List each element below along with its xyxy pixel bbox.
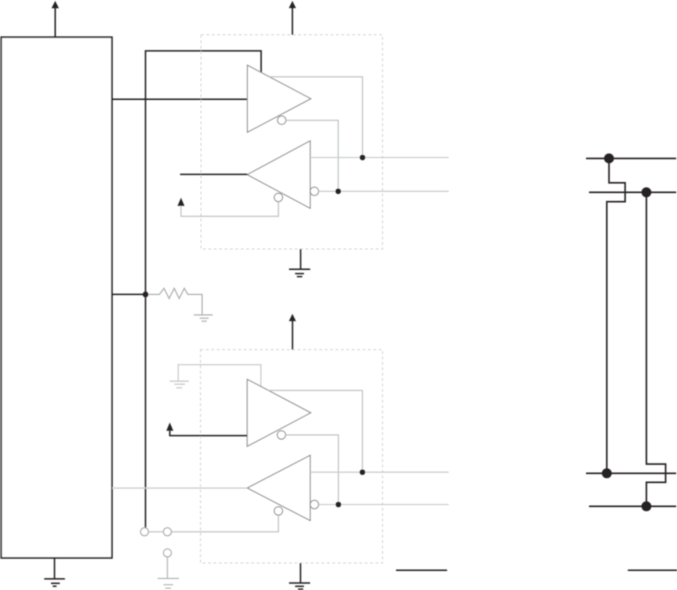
VCC arrow (U2) [289,1,296,35]
resistor R1 [148,288,202,314]
receiver R (U2) [247,141,310,209]
wire bus B (lower, gray) [319,504,449,506]
wire receiver1 enable [181,202,278,217]
transceiver box U2 (dashed) [201,35,383,249]
ground (J3, gray) [158,578,179,588]
wire stub (bottom right segment) [628,569,677,571]
wire bus B (upper, gray) [319,190,449,192]
bus line B (bottom right) [589,505,676,507]
wire D2 input [170,431,247,436]
arrow D2 net [166,423,173,431]
wire bus A (upper, gray) [310,157,449,159]
node bus B top [641,187,651,197]
node bus A top [604,153,614,163]
driver D (U2) [247,65,310,132]
wire driver1 Y output [269,77,362,158]
wire bus A (lower, gray) [310,471,449,473]
ground (U3 driver enable, gray) [170,381,189,388]
ground (below U3) [289,563,310,589]
receiver R (U3) [247,455,310,520]
VCC arrow (U3) [289,314,296,350]
bubble receiver2 enable [274,507,282,515]
bus line A (top right) [586,157,676,159]
ground (for R1, gray) [194,315,213,321]
wire driver2 Y output [268,390,362,472]
bubble receiver2 B input [310,500,318,508]
node junction (pullup) [143,292,149,298]
wire bus A vertical (crossover) [607,158,625,473]
wire R2 output [112,487,247,489]
wire receiver2 enable to jumper [171,515,278,532]
node B1 [335,189,341,195]
wire DE rail (top) [146,51,262,528]
transceiver box U3 (dashed) [201,350,383,563]
jumper pad J1 [141,528,149,536]
ground (below U2) [289,249,310,277]
bubble receiver1 B input [310,187,318,195]
node A1 [360,155,366,161]
IC block U1 (controller) [1,37,112,558]
wire bus B vertical (crossover) [646,192,665,506]
node B2 [336,502,342,508]
bubble receiver1 enable [274,193,282,201]
jumper pad J3 [163,549,171,557]
node bus A bottom [602,468,612,478]
driver D (U3) [247,379,311,446]
wire J1-J2 link [149,531,164,533]
wire D1 input [112,98,248,100]
wire U1 to pullup node [112,293,146,295]
node A2 [360,469,366,475]
bubble driver2 Z output [277,431,285,439]
bus line B (top right) [589,191,676,193]
wire J3 to ground [166,557,168,578]
wire stub (bottom left segment) [396,569,447,571]
arrow RE1 net [178,198,185,206]
bubble driver1 Z output [278,116,286,124]
wire R1 output [180,173,247,175]
node bus B bottom [641,501,651,511]
ground (below U1) [44,558,65,586]
wire driver2 Z to node [286,435,339,505]
wire driver1 Z to node [286,120,338,191]
bus line A (bottom right) [586,472,676,474]
wire driver2 enable to ground [178,365,261,387]
VCC arrow (on U1) [52,1,59,37]
jumper pad J2 [163,528,171,536]
